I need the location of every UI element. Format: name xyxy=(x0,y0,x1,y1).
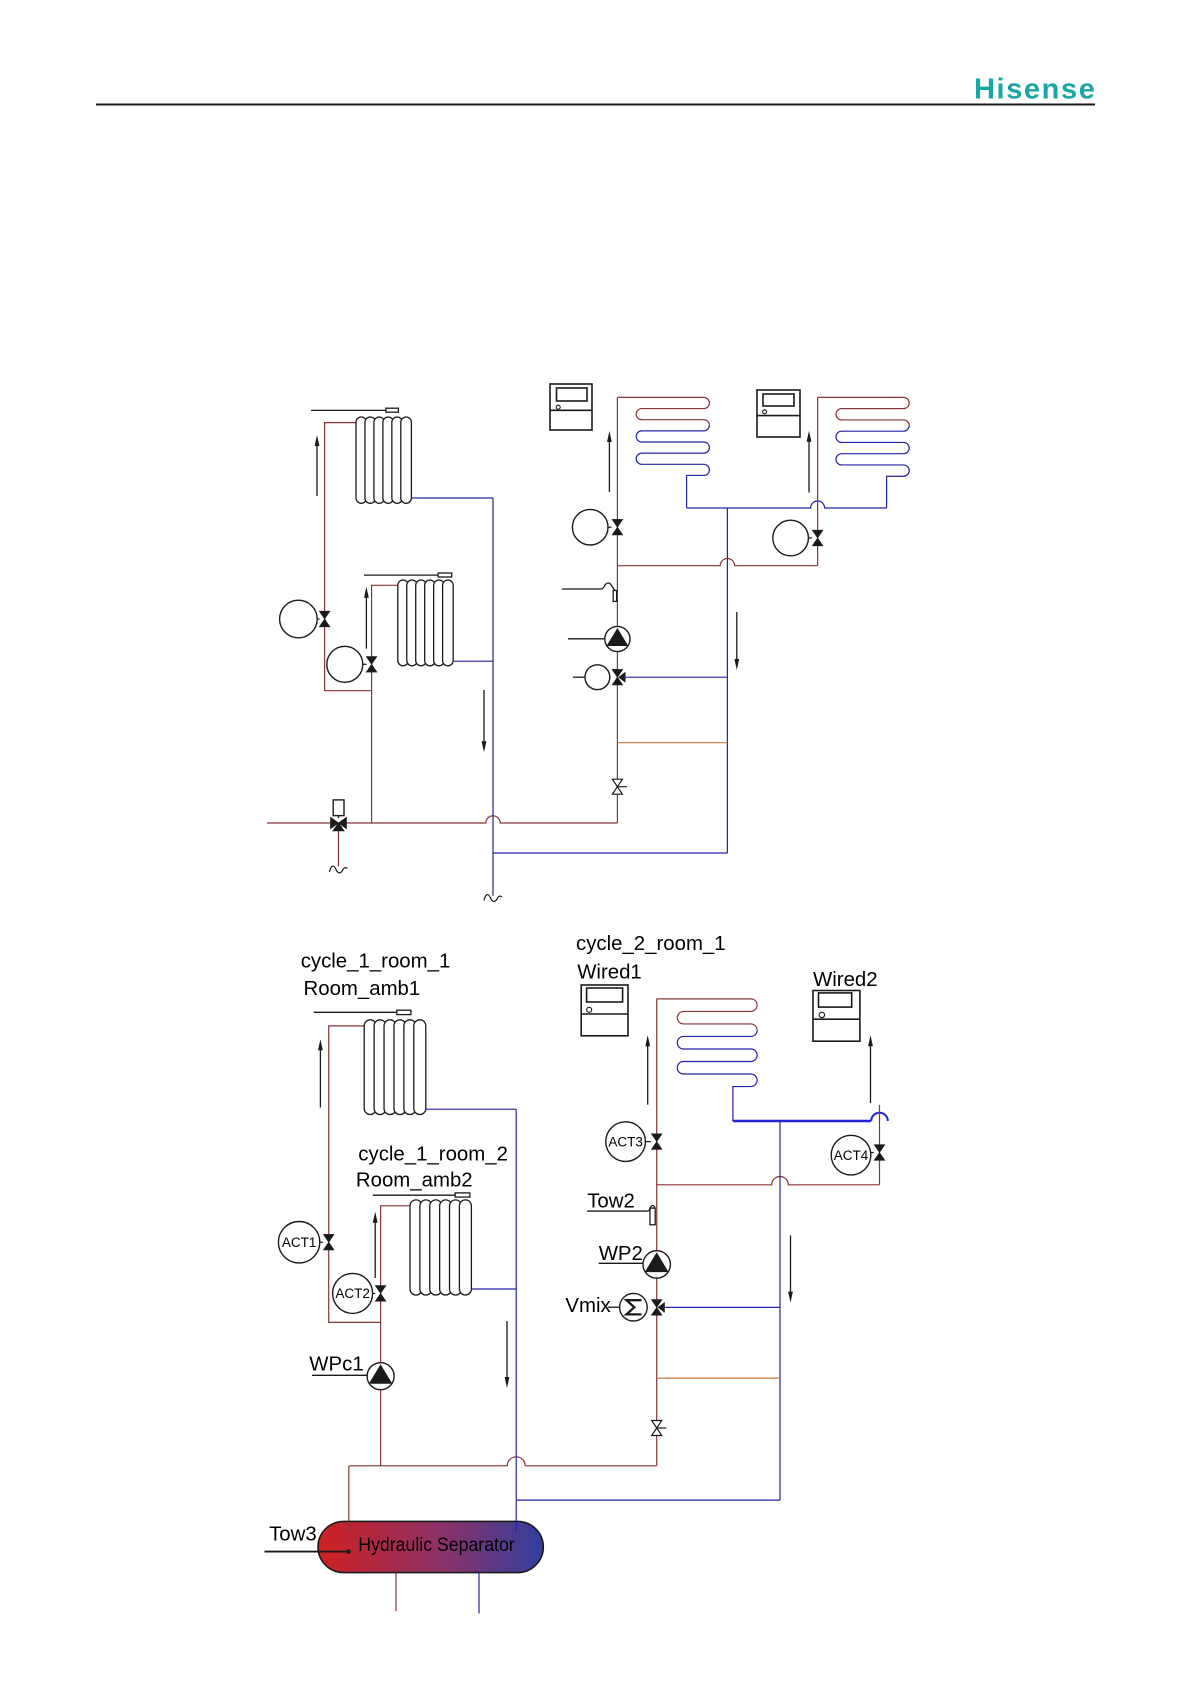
svg-text:Hisense: Hisense xyxy=(974,74,1096,106)
svg-text:ACT2: ACT2 xyxy=(335,1286,370,1301)
svg-text:ACT4: ACT4 xyxy=(834,1148,869,1163)
svg-text:Room_amb2: Room_amb2 xyxy=(356,1170,473,1192)
svg-text:Tow3: Tow3 xyxy=(269,1524,317,1546)
svg-text:Tow2: Tow2 xyxy=(587,1191,635,1213)
svg-text:ACT1: ACT1 xyxy=(282,1235,317,1250)
svg-text:Room_amb1: Room_amb1 xyxy=(304,978,421,1000)
svg-text:cycle_1_room_2: cycle_1_room_2 xyxy=(358,1143,508,1165)
svg-text:ACT3: ACT3 xyxy=(608,1134,643,1149)
svg-text:Wired1: Wired1 xyxy=(577,961,642,983)
svg-text:WPc1: WPc1 xyxy=(309,1353,363,1375)
svg-text:Wired2: Wired2 xyxy=(813,969,878,991)
svg-text:cycle_2_room_1: cycle_2_room_1 xyxy=(576,933,726,955)
svg-text:WP2: WP2 xyxy=(599,1243,643,1265)
svg-text:Vmix: Vmix xyxy=(565,1295,610,1317)
svg-text:Hydraulic Separator: Hydraulic Separator xyxy=(358,1534,515,1556)
svg-text:cycle_1_room_1: cycle_1_room_1 xyxy=(301,951,451,973)
